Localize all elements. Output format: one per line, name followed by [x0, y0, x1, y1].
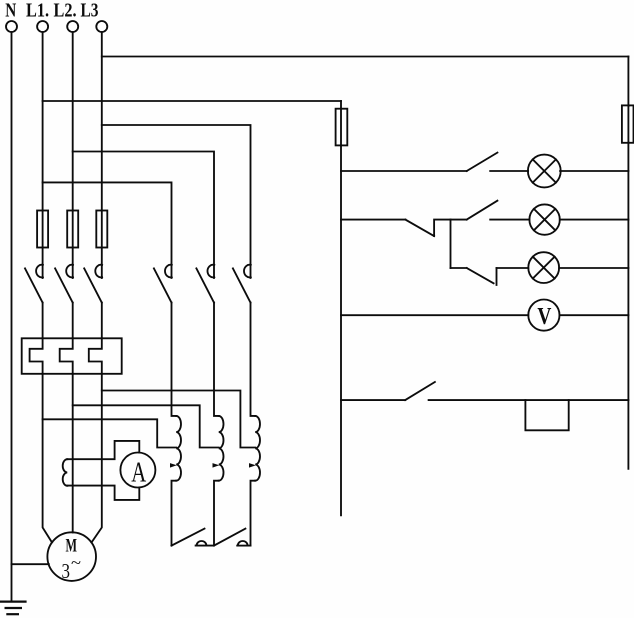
switch SA upper contact — [451, 201, 498, 220]
wire L1 branch to transformer column 1 — [43, 182, 172, 278]
contact KM1 pole 3 — [84, 265, 102, 303]
wire lamp row 2 left — [341, 219, 405, 221]
terminal L3 — [96, 21, 107, 32]
wire L3 vertical to fuse — [101, 32, 103, 211]
wire tap phase B to column 2 — [73, 405, 219, 447]
switch S1 — [467, 153, 498, 171]
wire L2 branch to transformer column 2 — [73, 152, 214, 279]
wire to lamp HL3 — [497, 267, 529, 269]
autotransformer winding T1 — [170, 416, 181, 481]
node L3 label — [81, 0, 99, 22]
wire L1 fuse to contact — [42, 248, 44, 279]
ammeter A — [120, 453, 155, 489]
voltmeter V — [528, 300, 559, 331]
svg-text:~: ~ — [71, 553, 81, 572]
wire column 1 to winding — [172, 303, 177, 416]
coil KM — [525, 400, 568, 430]
wire TA to ammeter top — [67, 441, 139, 459]
svg-text:A: A — [131, 458, 147, 489]
wire L3 branch to transformer column 3 — [102, 125, 251, 278]
wire L3 fuse to contact — [101, 248, 103, 279]
lamp HL2 — [529, 204, 559, 234]
wire N to motor — [12, 563, 49, 565]
motor M — [47, 532, 96, 583]
right rail lower — [627, 142, 629, 468]
svg-text:L1.: L1. — [26, 0, 49, 22]
thermal relay FR box — [22, 338, 122, 374]
contact KM3 star 2 — [214, 529, 251, 546]
switch SA blade left — [405, 220, 450, 237]
wire L2 vertical to fuse — [72, 32, 74, 211]
wire L1 vertical to fuse — [42, 32, 44, 211]
terminal N — [6, 21, 17, 32]
lamp HL1 — [528, 155, 561, 188]
svg-text:3: 3 — [62, 559, 71, 583]
contact KM1 pole 2 — [55, 265, 73, 303]
node L2 label — [54, 0, 77, 22]
fuse FU4 — [336, 109, 348, 146]
switch SA lower contact — [451, 268, 497, 285]
wire lamp HL1 to rail — [560, 170, 628, 172]
wire column 3 to winding — [251, 303, 256, 416]
wire L1 feed to control rail — [43, 100, 341, 102]
wire column 1 winding to star contact — [172, 481, 177, 546]
wire L3 top feed to right rail — [102, 56, 629, 58]
wire lamp HL2 to rail — [560, 219, 629, 221]
node L1 label — [26, 0, 49, 22]
terminal L1 — [37, 21, 48, 32]
wire column 2 to winding — [214, 303, 219, 416]
relay FR heater 3 — [89, 338, 102, 374]
wire voltmeter row left — [341, 314, 528, 316]
right rail upper — [627, 57, 629, 107]
wire voltmeter to rail — [560, 314, 629, 316]
relay FR heater 2 — [60, 338, 73, 374]
relay FR heater 1 — [30, 338, 43, 374]
wire phase C down to motor — [92, 374, 102, 543]
wire phase A down to motor — [43, 374, 52, 543]
terminal L2 — [67, 21, 78, 32]
wire phase A to relay — [42, 303, 44, 339]
control rail left — [340, 101, 342, 109]
wire coil row right — [429, 399, 629, 401]
control rail left lower — [340, 145, 342, 515]
wire L2 fuse to contact — [72, 248, 74, 279]
autotransformer winding T3 — [249, 416, 260, 481]
switch SA common bar — [450, 220, 452, 268]
svg-text:L2.: L2. — [54, 0, 77, 22]
svg-text:V: V — [537, 304, 552, 330]
wire coil row left — [341, 399, 405, 401]
svg-text:L3: L3 — [81, 0, 99, 22]
ground — [1, 602, 26, 615]
fuse FU2 — [67, 211, 78, 248]
lamp HL3 — [528, 252, 559, 283]
fuse FU3 — [96, 211, 107, 248]
contact KM2 pole 2 — [196, 265, 214, 303]
wire to lamp HL2 — [490, 219, 529, 221]
fuse FU5 — [622, 105, 634, 142]
wire phase C to relay — [101, 303, 103, 339]
wire N vertical — [11, 32, 13, 601]
contact KM2 pole 1 — [154, 265, 172, 303]
node N label — [5, 0, 16, 22]
svg-text:N: N — [5, 0, 16, 22]
autotransformer winding T2 — [213, 416, 224, 481]
wire TA to ammeter bottom — [67, 486, 139, 500]
current transformer TA — [63, 459, 68, 486]
wire column 3 winding to star contact — [251, 481, 256, 546]
contact KM3 star 1 — [172, 529, 215, 546]
contact KM1 pole 1 — [25, 265, 43, 303]
fuse FU1 — [37, 211, 48, 248]
wire lamp row 1 left — [341, 170, 467, 172]
wire to lamp HL1 — [490, 170, 528, 172]
wire tap phase C to column 3 — [102, 391, 255, 448]
wire tap phase A to column 1 — [43, 419, 177, 447]
switch S2 — [405, 382, 435, 400]
contact KM2 pole 3 — [233, 265, 251, 303]
wire lamp HL3 to rail — [559, 267, 628, 269]
wire column 2 winding to star contact — [214, 481, 219, 546]
wire phase B down to motor — [72, 374, 74, 533]
wire phase B to relay — [72, 303, 74, 339]
